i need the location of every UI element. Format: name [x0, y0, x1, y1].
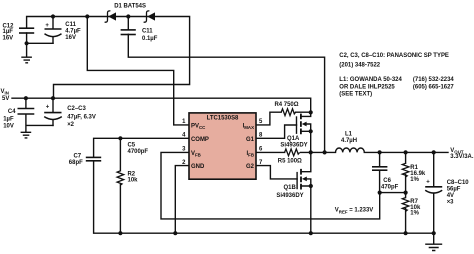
- svg-text:D1 BAT54S: D1 BAT54S: [114, 2, 146, 9]
- svg-text:R4 750Ω: R4 750Ω: [275, 101, 299, 108]
- svg-text:1: 1: [182, 118, 186, 125]
- svg-text:G1: G1: [246, 135, 254, 142]
- svg-text:16V: 16V: [3, 34, 14, 41]
- svg-text:8: 8: [259, 131, 263, 138]
- svg-text:(605) 665-1627: (605) 665-1627: [413, 83, 454, 90]
- svg-text:3.3V/3A.: 3.3V/3A.: [450, 153, 473, 160]
- svg-text:4.7µH: 4.7µH: [341, 137, 357, 144]
- svg-text:+: +: [45, 21, 49, 28]
- svg-text:4: 4: [182, 131, 186, 138]
- svg-text:×2: ×2: [67, 121, 74, 128]
- svg-text:Si4936DY: Si4936DY: [280, 141, 308, 148]
- svg-text:7: 7: [259, 159, 263, 166]
- svg-text:0.1µF: 0.1µF: [142, 35, 157, 42]
- svg-text:3: 3: [182, 145, 186, 152]
- svg-text:1%: 1%: [410, 209, 419, 216]
- svg-text:COMP: COMP: [191, 135, 210, 142]
- svg-text:+: +: [426, 178, 430, 185]
- svg-text:C4: C4: [8, 107, 16, 114]
- svg-text:(201) 348-7522: (201) 348-7522: [339, 61, 380, 68]
- svg-text:Si4936DY: Si4936DY: [276, 191, 304, 198]
- svg-text:5V: 5V: [2, 95, 10, 102]
- svg-text:VREF = 1.233V: VREF = 1.233V: [335, 206, 374, 214]
- svg-text:GND: GND: [191, 163, 205, 170]
- svg-text:16V: 16V: [65, 34, 76, 41]
- svg-text:C11: C11: [142, 27, 153, 34]
- svg-text:Q1B: Q1B: [284, 183, 297, 190]
- svg-text:(SEE TEXT): (SEE TEXT): [339, 90, 372, 97]
- svg-text:1%: 1%: [410, 175, 419, 182]
- svg-text:470pF: 470pF: [381, 183, 398, 190]
- svg-text:OR DALE IHLP2525: OR DALE IHLP2525: [339, 83, 395, 90]
- svg-text:4700pF: 4700pF: [128, 148, 149, 155]
- svg-text:G2: G2: [246, 163, 254, 170]
- svg-text:+: +: [46, 103, 50, 110]
- svg-text:47µF, 6.3V: 47µF, 6.3V: [67, 113, 96, 120]
- svg-text:5: 5: [259, 118, 263, 125]
- svg-text:10k: 10k: [128, 176, 138, 183]
- svg-text:×3: ×3: [447, 198, 454, 205]
- svg-text:10V: 10V: [3, 122, 14, 129]
- svg-text:C2, C3, C8–C10: PANASONIC SP T: C2, C3, C8–C10: PANASONIC SP TYPE: [339, 51, 449, 58]
- svg-text:LTC1530S8: LTC1530S8: [207, 114, 239, 121]
- svg-text:68pF: 68pF: [69, 159, 83, 166]
- svg-text:2: 2: [182, 159, 186, 166]
- svg-text:6: 6: [259, 145, 263, 152]
- svg-text:C2–C3: C2–C3: [67, 105, 86, 112]
- svg-text:R5 100Ω: R5 100Ω: [278, 157, 302, 164]
